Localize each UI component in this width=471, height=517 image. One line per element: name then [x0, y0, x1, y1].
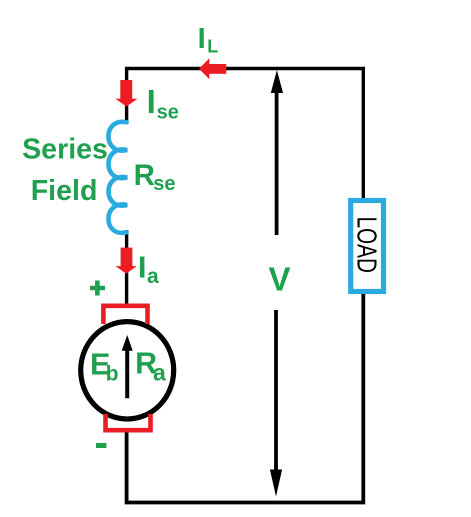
label Rse: [134, 159, 176, 195]
svg-text:I: I: [147, 83, 156, 120]
svg-text:R: R: [134, 159, 155, 192]
label IL: [198, 23, 219, 57]
label + (positive terminal): [90, 281, 105, 296]
label - (negative terminal): [96, 443, 107, 448]
label Series Field: [22, 134, 108, 207]
svg-text:se: se: [157, 101, 179, 123]
brush top (red bracket): [103, 306, 147, 324]
inductor Rse (series field coil): [108, 122, 127, 233]
svg-text:LOAD: LOAD: [351, 217, 382, 274]
armature arrow (inside circle, pointing up): [122, 335, 133, 398]
svg-text:b: b: [106, 362, 119, 385]
svg-text:a: a: [147, 265, 159, 288]
label Ise: [147, 83, 179, 123]
svg-text:I: I: [138, 249, 147, 284]
label Eb: [90, 348, 119, 386]
svg-text:V: V: [269, 261, 291, 298]
motor armature circle: [81, 322, 174, 419]
svg-text:Series: Series: [22, 134, 108, 166]
wire: top horizontal with left and right corners: [127, 69, 364, 200]
load resistor box: [351, 201, 384, 292]
label Ia: [138, 249, 159, 287]
wire: right vertical lower + bottom horizontal + motor to bottom: [127, 292, 364, 503]
svg-text:se: se: [153, 173, 175, 195]
current arrow Ia (red, pointing down, above motor): [116, 248, 137, 274]
svg-text:Field: Field: [31, 175, 98, 207]
wire: coil bottom to motor top: [125, 230, 128, 307]
svg-text:L: L: [207, 37, 218, 57]
voltage arrow V lower (pointing down): [270, 310, 282, 497]
svg-text:I: I: [198, 23, 206, 55]
current arrow Ise (red, pointing down, below top-left corner): [116, 80, 138, 107]
brush bottom (red bracket): [106, 414, 151, 430]
current arrow IL (red, pointing left, on top wire): [199, 58, 226, 79]
label Ra: [135, 347, 166, 386]
svg-text:a: a: [153, 359, 166, 385]
voltage arrow V upper (pointing up): [271, 70, 283, 235]
